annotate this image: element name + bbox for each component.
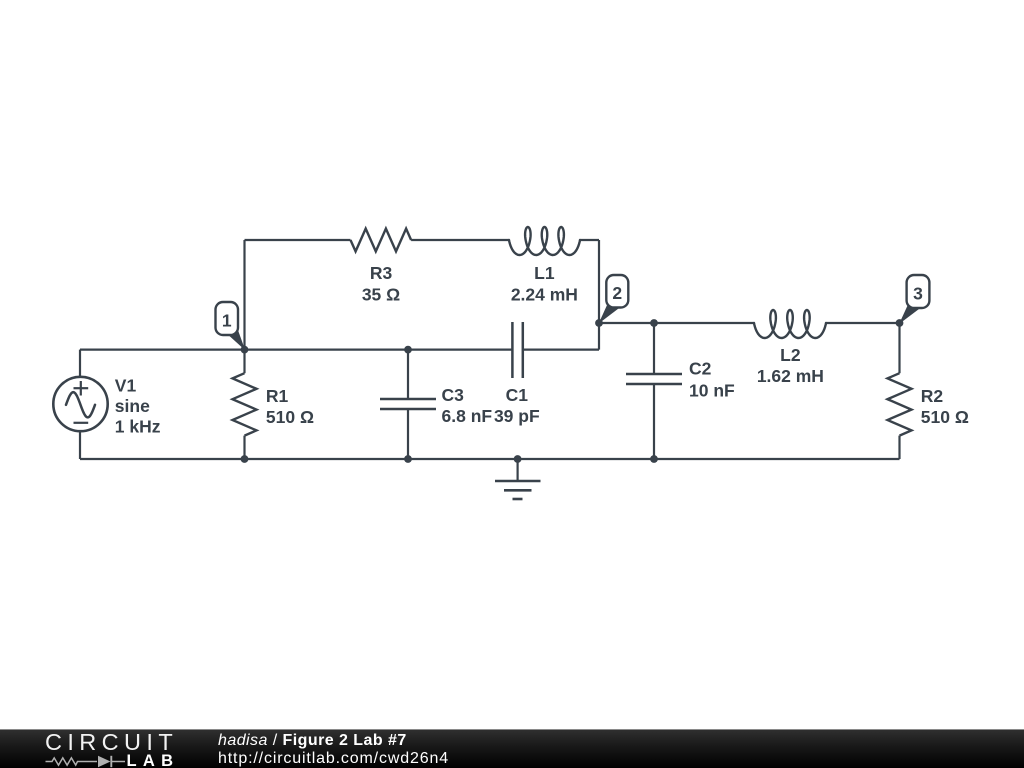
svg-text:1 kHz: 1 kHz <box>115 417 161 437</box>
svg-text:35 Ω: 35 Ω <box>362 284 400 304</box>
svg-text:R3: R3 <box>370 263 393 283</box>
svg-text:C1: C1 <box>506 385 529 405</box>
svg-text:3: 3 <box>913 283 923 303</box>
svg-text:2: 2 <box>612 283 622 303</box>
svg-text:1.62 mH: 1.62 mH <box>757 366 824 386</box>
svg-text:C2: C2 <box>689 359 712 379</box>
svg-text:510 Ω: 510 Ω <box>921 407 969 427</box>
svg-text:LAB: LAB <box>127 752 180 768</box>
svg-text:CIRCUIT: CIRCUIT <box>45 729 178 755</box>
svg-text:V1: V1 <box>115 375 137 395</box>
svg-text:1: 1 <box>222 310 232 330</box>
svg-text:6.8 nF: 6.8 nF <box>442 406 493 426</box>
svg-text:L1: L1 <box>534 263 555 283</box>
svg-text:R1: R1 <box>266 386 289 406</box>
svg-text:39 pF: 39 pF <box>494 406 540 426</box>
svg-text:510 Ω: 510 Ω <box>266 407 314 427</box>
svg-text:2.24 mH: 2.24 mH <box>511 284 578 304</box>
svg-text:C3: C3 <box>442 385 465 405</box>
svg-text:10 nF: 10 nF <box>689 380 735 400</box>
svg-text:L2: L2 <box>780 345 801 365</box>
svg-text:R2: R2 <box>921 386 944 406</box>
svg-text:sine: sine <box>115 396 150 416</box>
